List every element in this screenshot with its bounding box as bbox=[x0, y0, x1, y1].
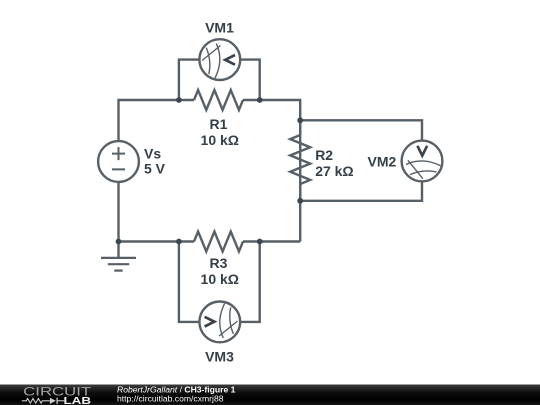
voltmeter VM2 bbox=[402, 141, 443, 182]
resistor R1 bbox=[194, 90, 243, 110]
voltmeter VM1 bbox=[199, 39, 240, 80]
node junction R3 right bbox=[257, 239, 263, 245]
voltmeter VM3 bbox=[199, 302, 240, 343]
wire VM3 right lead bbox=[240, 242, 260, 322]
wire bottom horizontal left bbox=[119, 240, 195, 242]
svg-text:http://circuitlab.com/cxmrj88: http://circuitlab.com/cxmrj88 bbox=[117, 394, 224, 404]
svg-text:Vs: Vs bbox=[144, 146, 161, 162]
voltage source Vs bbox=[98, 141, 139, 182]
wire VM1 left lead bbox=[179, 60, 200, 100]
ground bbox=[101, 242, 136, 271]
svg-text:VM2: VM2 bbox=[368, 154, 397, 170]
logo resistor-diode art bbox=[22, 398, 64, 404]
wire left rail lower bbox=[117, 182, 119, 242]
node junction R2 bottom bbox=[297, 198, 303, 204]
resistor R2 bbox=[290, 120, 310, 201]
node junction R3 left bbox=[176, 239, 182, 245]
wire top-right horizontal bbox=[243, 100, 300, 242]
wire VM2 bottom lead bbox=[300, 181, 422, 200]
svg-text:VM1: VM1 bbox=[205, 20, 234, 36]
wire VM2 top lead bbox=[300, 120, 422, 140]
node junction R2 top bbox=[297, 117, 303, 123]
svg-text:R2: R2 bbox=[315, 147, 333, 163]
node junction ground bbox=[116, 239, 122, 245]
wire bottom horizontal right bbox=[243, 240, 300, 242]
svg-text:10 kΩ: 10 kΩ bbox=[201, 132, 239, 148]
node junction R1 left bbox=[176, 97, 182, 103]
svg-text:27 kΩ: 27 kΩ bbox=[315, 163, 353, 179]
wire VM1 right lead bbox=[240, 60, 260, 100]
wire VM3 left lead bbox=[179, 242, 200, 322]
node junction R1 right bbox=[257, 97, 263, 103]
footer bar bbox=[0, 385, 540, 405]
svg-text:5 V: 5 V bbox=[144, 161, 166, 177]
logo diode triangle bbox=[50, 398, 56, 404]
wire top-left horizontal bbox=[119, 100, 195, 141]
svg-text:10 kΩ: 10 kΩ bbox=[201, 271, 239, 287]
svg-text:VM3: VM3 bbox=[205, 349, 234, 365]
svg-text:LAB: LAB bbox=[64, 396, 92, 405]
svg-text:R3: R3 bbox=[210, 255, 228, 271]
svg-text:R1: R1 bbox=[210, 116, 228, 132]
resistor R3 bbox=[194, 232, 243, 252]
